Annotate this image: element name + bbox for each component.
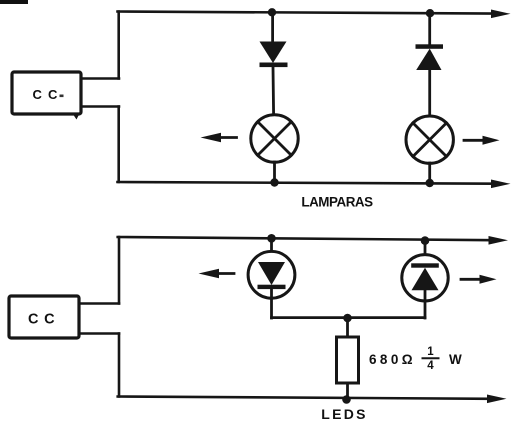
- wire U1 bottom terminal: [81, 105, 119, 108]
- wire to diode D2: [428, 13, 431, 46]
- wire U2 top terminal: [79, 302, 119, 305]
- svg-text:LAMPARAS: LAMPARAS: [301, 195, 373, 210]
- arrow direction right (lamp 2): [464, 139, 485, 142]
- box U1 (C.C. control circuit, top): [12, 72, 81, 114]
- wire to diode D1: [271, 12, 274, 42]
- wire vertical feed to bottom rail: [117, 107, 120, 183]
- svg-text:LEDS: LEDS: [321, 406, 368, 422]
- resistor R1: [337, 337, 359, 383]
- lamp L1: [251, 115, 298, 162]
- wire L2 to bottom rail: [428, 163, 431, 183]
- wire D1 to lamp L1: [272, 67, 275, 115]
- page corner black bar: [0, 0, 28, 4]
- wire LED2 to common node: [424, 290, 427, 318]
- wire vertical feed to LED bottom rail: [118, 334, 121, 397]
- wire to LED1: [270, 238, 273, 262]
- node dot A1: [268, 8, 276, 16]
- arrow direction left (LED1): [212, 272, 234, 275]
- wire LED1 to common node: [270, 289, 273, 318]
- LED1 (left, cathode down): [248, 251, 295, 298]
- node dot A2: [426, 9, 434, 17]
- arrow direction left (lamp 1): [214, 136, 237, 139]
- arrow top rail right: [491, 10, 511, 19]
- diode D1 (cathode down): [260, 42, 287, 64]
- node dot B1: [267, 234, 276, 243]
- LED2 (right, cathode up): [402, 255, 448, 301]
- box U2 (C.C. control circuit, bottom): [9, 296, 79, 338]
- wire vertical feed to top rail: [117, 12, 120, 79]
- wire vertical feed to LED top rail: [118, 237, 121, 304]
- svg-text:680Ω: 680Ω: [369, 352, 416, 367]
- ink blot under box U1: [73, 114, 80, 120]
- arrow bottom rail right (leds): [487, 395, 507, 404]
- wire D2 to lamp L2: [428, 70, 431, 116]
- wire common node joining LED bottoms: [272, 316, 426, 319]
- node dot B4: [342, 395, 351, 404]
- svg-text:1: 1: [427, 346, 434, 358]
- lamp L2: [406, 116, 453, 163]
- svg-text:4: 4: [427, 360, 434, 372]
- arrow bottom rail right: [491, 180, 511, 189]
- node dot A3: [270, 178, 278, 186]
- node dot A4: [426, 179, 434, 187]
- wire L1 to bottom rail: [273, 162, 276, 183]
- wire bottom rail (lamps): [118, 182, 496, 184]
- node dot B2: [421, 236, 430, 245]
- diode D2 (cathode up): [416, 44, 444, 49]
- wire node to resistor R1: [346, 318, 349, 337]
- node dot B3: [343, 314, 352, 323]
- wire top rail (leds): [118, 237, 492, 240]
- arrow direction right (LED2): [461, 278, 482, 281]
- wire bottom rail (leds): [118, 397, 490, 399]
- svg-text:W: W: [449, 352, 462, 367]
- arrow top rail right (leds): [489, 236, 509, 245]
- wire U2 bottom terminal: [79, 332, 119, 335]
- wire resistor to bottom rail: [346, 383, 349, 400]
- svg-text:C C: C C: [28, 312, 55, 328]
- svg-text:C C: C C: [33, 87, 59, 102]
- wire U1 top terminal: [81, 77, 119, 80]
- wire top rail (lamps): [118, 12, 496, 14]
- wire to LED2: [424, 240, 427, 264]
